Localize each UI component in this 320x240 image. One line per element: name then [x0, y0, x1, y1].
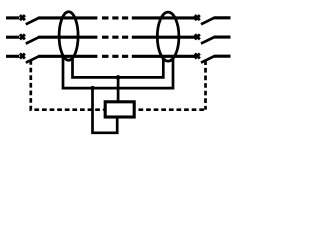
termination X2 right	[195, 34, 200, 39]
wire: conductor 1 main right segment	[132, 16, 196, 19]
termination X1 right	[195, 15, 200, 20]
wire: conductor 2 main right segment	[132, 36, 196, 39]
wire: conductor 3 left diagonal	[26, 56, 39, 62]
wire: conductor 3 right stub	[214, 55, 231, 58]
wire: dashed shield path right (down, then left to box)	[204, 60, 207, 109]
ground box (bonding impedance)	[105, 102, 134, 117]
wire: inner shield rail between ellipse bottoms	[73, 58, 164, 77]
termination X3 left	[20, 54, 25, 59]
termination X1 left	[20, 15, 25, 20]
wire: conductor 3 left stub	[6, 55, 19, 58]
wire: conductor 2 right diagonal	[201, 37, 214, 44]
wire: dashed shield path right horizontal to box	[136, 108, 206, 111]
node: junction on outer rail	[90, 86, 94, 90]
node: junction on inner rail	[116, 75, 121, 80]
termination X3 right	[195, 54, 200, 59]
termination X2 left	[20, 34, 25, 39]
wire: bottom pin and loop from box to outer rail	[93, 88, 118, 133]
wire: conductor 1 left stub	[6, 16, 19, 19]
shield ellipse left	[59, 12, 78, 60]
wire: conductor 2 continuation dashes	[102, 36, 128, 39]
wire: conductor 1 main left segment	[38, 16, 97, 19]
wire: conductor 2 right stub	[214, 36, 231, 39]
wire: conductor 2 left diagonal	[26, 37, 39, 43]
wire: dashed shield path left (down, then right to box)	[31, 60, 104, 110]
wire: outer shield rail	[63, 57, 173, 89]
wire: conductor 3 continuation dashes	[102, 55, 128, 58]
wire: conductor 3 right diagonal	[201, 56, 214, 63]
shield ellipse right	[157, 12, 179, 61]
wire: conductor 2 main left segment	[38, 36, 97, 39]
wire: conductor 3 main left segment	[38, 55, 97, 58]
wire: conductor 1 left diagonal	[26, 18, 39, 24]
wire: conductor 1 right diagonal	[201, 18, 214, 25]
wire: conductor 1 continuation dashes	[102, 16, 128, 19]
wire: conductor 3 main right segment	[132, 55, 196, 58]
wire: conductor 2 left stub	[6, 36, 19, 39]
wire: conductor 1 right stub	[214, 16, 231, 19]
wire: top pin from inner rail to ground box	[117, 77, 120, 101]
